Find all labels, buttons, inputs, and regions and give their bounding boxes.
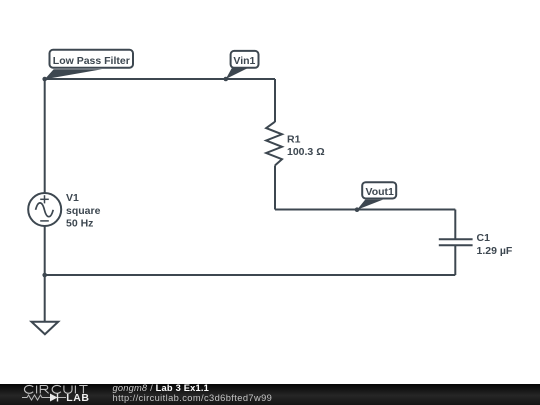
logo wire with resistor and diode bbox=[22, 395, 66, 400]
svg-text:Low Pass Filter: Low Pass Filter bbox=[53, 55, 130, 67]
net flag Vin1 bbox=[226, 51, 259, 79]
ground bbox=[32, 322, 59, 335]
svg-text:Vin1: Vin1 bbox=[233, 55, 255, 67]
node dot Vout1 bbox=[355, 207, 360, 212]
net flag Vout1 bbox=[357, 182, 396, 210]
wire mid horizontal (to C1 corner) bbox=[275, 209, 455, 211]
node dot ground junction bbox=[42, 273, 47, 278]
net flag Low Pass Filter bbox=[45, 50, 133, 79]
wire R1 bottom to mid corner bbox=[274, 165, 276, 209]
svg-text:LAB: LAB bbox=[66, 392, 89, 404]
svg-text:gongm8 / Lab 3 Ex1.1: gongm8 / Lab 3 Ex1.1 bbox=[113, 384, 210, 393]
wire bottom horizontal bbox=[45, 274, 456, 276]
svg-text:C1: C1 bbox=[477, 232, 491, 244]
svg-text:R1: R1 bbox=[287, 133, 301, 145]
logo letter R bbox=[40, 386, 48, 394]
node dot Vin1 bbox=[224, 77, 229, 82]
svg-text:50 Hz: 50 Hz bbox=[66, 218, 93, 230]
capacitor C1 bbox=[439, 239, 473, 245]
wire ground stem bbox=[44, 275, 46, 322]
voltage source V1 bbox=[28, 193, 61, 226]
node dot A (Low Pass Filter) bbox=[42, 77, 47, 82]
logo letter U bbox=[64, 386, 72, 394]
diode symbol bbox=[50, 394, 58, 402]
logo letter I bbox=[36, 386, 38, 394]
wire left vertical (node A to V1 top) bbox=[44, 79, 46, 193]
wire C1 stem top bbox=[454, 210, 456, 240]
svg-text:http://circuitlab.com/c3d6bfte: http://circuitlab.com/c3d6bfted7w99 bbox=[113, 393, 273, 403]
logo letter I bbox=[74, 386, 76, 394]
wire top horizontal (node A to corner) bbox=[45, 78, 275, 80]
svg-text:1.29 µF: 1.29 µF bbox=[477, 245, 513, 257]
logo letter C bbox=[24, 385, 33, 393]
CircuitLab logo wordmark CIRCUIT bbox=[22, 385, 90, 404]
footer bar bbox=[0, 384, 540, 405]
svg-text:square: square bbox=[66, 205, 101, 217]
logo letter C bbox=[52, 385, 61, 393]
svg-text:V1: V1 bbox=[66, 192, 79, 204]
logo letter T bbox=[79, 386, 87, 394]
svg-text:100.3 Ω: 100.3 Ω bbox=[287, 146, 325, 158]
svg-text:Vout1: Vout1 bbox=[366, 186, 395, 198]
wire right vertical top (corner to R1 top) bbox=[274, 79, 276, 122]
wire V1 bottom to ground node bbox=[44, 226, 46, 275]
wire C1 stem bottom bbox=[454, 245, 456, 275]
resistor R1 bbox=[266, 122, 282, 166]
